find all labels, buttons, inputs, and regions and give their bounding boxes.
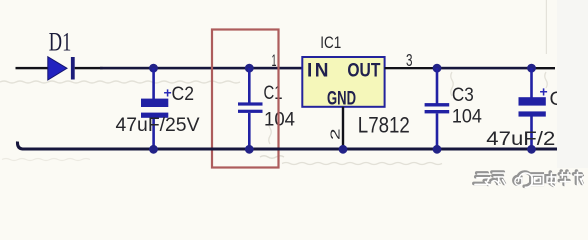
- wire top rail C3 node to C4 node: [437, 67, 532, 70]
- node bottom of C4: [527, 145, 536, 154]
- wire IC1 OUT to C3 node: [385, 67, 437, 69]
- svg-text:+: +: [164, 85, 172, 101]
- watermark artifact vertical squiggle near C1: [269, 120, 272, 144]
- capacitor C3: [425, 68, 450, 150]
- node top of C1: [245, 64, 254, 73]
- svg-text:C3: C3: [452, 85, 474, 106]
- svg-text:47uF/25V: 47uF/25V: [116, 114, 200, 136]
- node top of C2: [149, 64, 158, 73]
- svg-text:OUT: OUT: [347, 60, 380, 81]
- wire bottom rail: [17, 142, 559, 150]
- highlight red rectangle around C1: [212, 30, 279, 168]
- node bottom of C2: [149, 145, 158, 154]
- svg-text:GND: GND: [327, 89, 356, 110]
- watermark artifact vertical squiggle near C3: [451, 72, 454, 96]
- svg-text:C1: C1: [264, 83, 283, 104]
- wire IC1 GND pin down: [342, 107, 344, 150]
- node bottom of C1: [245, 145, 254, 154]
- svg-text:IC1: IC1: [320, 34, 341, 52]
- wire top rail C2 node to IC1 IN: [100, 67, 303, 70]
- svg-text:104: 104: [452, 106, 482, 128]
- node top of C3: [433, 64, 442, 73]
- watermark artifact faint squiggle bottom left: [2, 159, 90, 161]
- node bottom of IC1 GND: [339, 145, 348, 154]
- wire top rail left segment: [16, 67, 49, 69]
- watermark artifact squiggle under diode: [0, 81, 240, 83]
- watermark artifact vertical line top right: [546, 0, 547, 54]
- wire top rail C4 node to right end: [532, 67, 556, 69]
- node top of C4: [527, 64, 536, 73]
- watermark artifact squiggle below bottom rail near C1: [260, 156, 284, 159]
- svg-text:+: +: [540, 84, 548, 100]
- capacitor C1: [238, 68, 263, 150]
- svg-text:D1: D1: [49, 28, 72, 57]
- capacitor C4 (electrolytic): [519, 68, 546, 150]
- svg-text:IN: IN: [307, 60, 331, 81]
- svg-text:C2: C2: [172, 84, 195, 105]
- svg-text:1: 1: [272, 51, 277, 70]
- wire diode cathode to C2 node: [75, 67, 103, 69]
- right edge fade overlay: [557, 0, 588, 168]
- diode D1: [48, 57, 75, 80]
- svg-text:3: 3: [406, 50, 413, 70]
- background paper: [0, 0, 588, 192]
- svg-text:L7812: L7812: [358, 113, 410, 138]
- watermark artifact vertical squiggle near C4: [545, 72, 548, 88]
- node bottom of C3: [433, 145, 442, 154]
- regulator IC1: [302, 57, 384, 110]
- svg-text:47uF/2: 47uF/2: [486, 128, 555, 150]
- watermark artifact squiggle below bottom rail C1 to C3: [282, 163, 442, 165]
- watermark logo and text (embossed fake CJK): [474, 171, 583, 187]
- svg-text:2: 2: [328, 128, 343, 140]
- capacitor C2 (electrolytic): [141, 68, 168, 150]
